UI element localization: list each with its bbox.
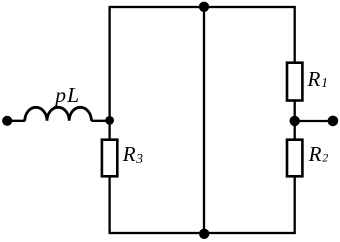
- svg-text:R: R: [308, 142, 322, 166]
- svg-text:1: 1: [321, 75, 328, 90]
- terminal left (input node dot): [2, 116, 12, 126]
- resistor R1 (body): [287, 63, 302, 101]
- svg-text:R: R: [122, 142, 136, 166]
- node B (right junction dot): [290, 116, 300, 126]
- wire middle branch: [203, 7, 205, 233]
- wire from left terminal to inductor: [7, 120, 25, 122]
- svg-text:2: 2: [322, 151, 328, 165]
- inductor pL (coil): [25, 107, 92, 120]
- node top (junction dot): [199, 2, 209, 12]
- node A (inductor junction dot): [105, 116, 114, 125]
- wire outer loop (top bus, left branch, right branch, bottom bus): [110, 7, 295, 233]
- wire from inductor to junction: [91, 120, 109, 122]
- resistor R3 (body): [102, 140, 117, 177]
- svg-text:3: 3: [135, 151, 143, 166]
- wire from right junction to output terminal: [295, 120, 333, 122]
- node bottom (junction dot): [199, 229, 209, 239]
- svg-text:pL: pL: [53, 83, 80, 107]
- terminal right (output node dot): [328, 116, 339, 127]
- resistor R2 (body): [287, 140, 302, 177]
- svg-text:R: R: [307, 67, 321, 91]
